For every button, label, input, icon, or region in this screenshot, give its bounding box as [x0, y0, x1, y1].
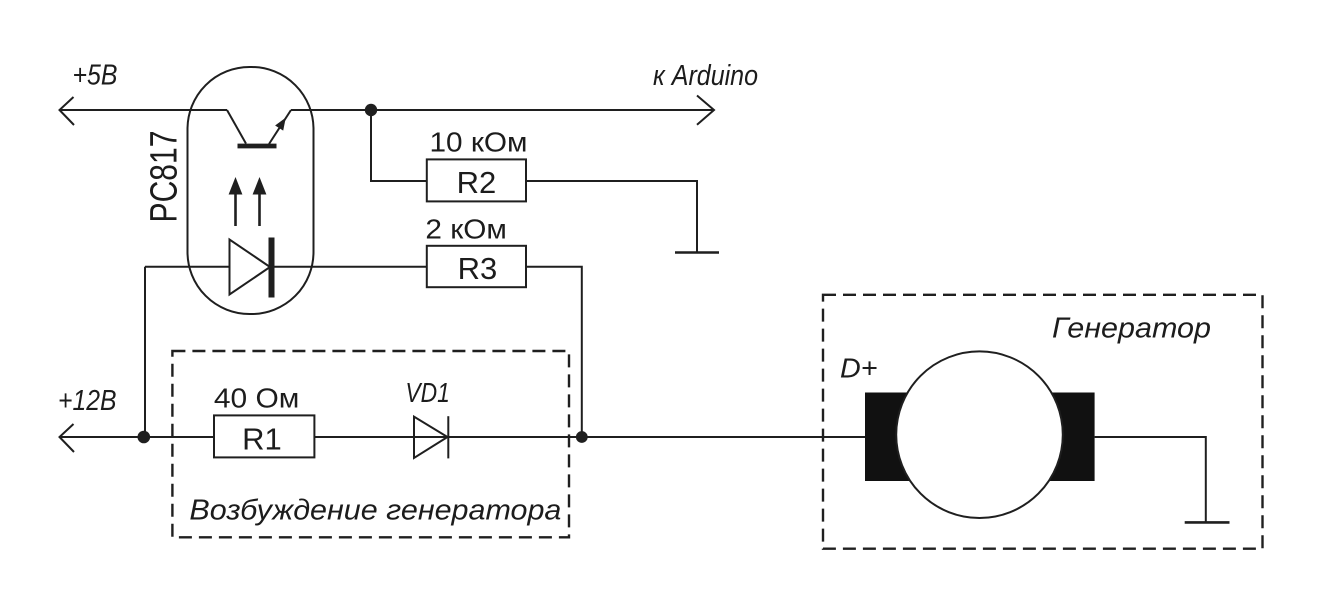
svg-text:2 кОм: 2 кОм [425, 213, 507, 244]
wire R2 to ground [526, 181, 697, 252]
svg-text:40 Ом: 40 Ом [214, 383, 300, 414]
brush right black rect [1040, 393, 1095, 482]
diode VD1 cathode bar [447, 416, 449, 458]
svg-text:D+: D+ [840, 353, 878, 384]
wire LED cathode to R3 [273, 266, 427, 268]
wire top rail right segment [291, 109, 713, 111]
wire R3 down to +12V rail [526, 267, 582, 437]
brush left black rect [865, 393, 920, 482]
transistor Q1 base bar [238, 144, 277, 149]
svg-text:+5В: +5В [73, 60, 118, 92]
light arrow 2 [258, 194, 261, 226]
generator dashed box [823, 295, 1263, 549]
optocoupler U1 PC817 body [188, 67, 314, 314]
dashed box excitation circuit [172, 351, 569, 537]
transistor Q1 collector lead [227, 110, 246, 144]
wire +12V bottom rail [60, 436, 867, 438]
svg-text:к Arduino: к Arduino [653, 60, 758, 92]
junction dot right on +12V rail [576, 431, 588, 443]
ground G1 [675, 251, 719, 254]
left arrowhead +5V [60, 97, 75, 125]
left arrowhead +12V [60, 424, 75, 452]
resistor R1 box [214, 415, 314, 457]
junction dot top rail [365, 104, 377, 116]
svg-text:VD1: VD1 [405, 377, 450, 408]
LED D1 cathode bar [269, 238, 275, 298]
transistor Q1 emitter lead with arrow [269, 110, 291, 144]
LED D1 triangle [230, 240, 271, 295]
svg-text:R3: R3 [458, 251, 498, 286]
wire top rail left segment [60, 109, 228, 111]
wire vertical down to +12V rail [144, 267, 146, 437]
svg-text:10 кОм: 10 кОм [430, 126, 528, 157]
diode VD1 triangle [414, 417, 448, 458]
wire LED anode to left [145, 266, 230, 268]
wire junction down to R2 [371, 110, 427, 181]
right arrowhead to Arduino [697, 96, 714, 125]
svg-text:PC817: PC817 [144, 131, 186, 223]
resistor R3 box [427, 246, 526, 287]
resistor R2 box [427, 159, 526, 201]
svg-text:R1: R1 [242, 421, 282, 456]
svg-text:+12В: +12В [58, 385, 117, 417]
svg-text:Возбуждение генератора: Возбуждение генератора [189, 495, 561, 527]
svg-text:R2: R2 [457, 165, 497, 200]
ground G2 [1185, 521, 1230, 524]
wire generator to ground [1095, 437, 1206, 522]
svg-text:Генератор: Генератор [1052, 312, 1211, 344]
junction dot left on +12V rail [138, 431, 151, 444]
light arrow 1 [234, 194, 237, 226]
rotor circle [896, 351, 1063, 518]
